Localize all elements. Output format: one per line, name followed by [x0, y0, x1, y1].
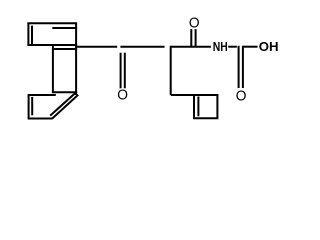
chain bond CH to carbonyl C to NH [171, 46, 211, 48]
ring C bottom edge [193, 117, 218, 119]
acid C=O double bond line 2 [242, 46, 244, 88]
ring A left edge inner double-bond line [31, 26, 33, 45]
ring C left edge inner double-bond line [197, 97, 199, 117]
svg-text:OH: OH [259, 39, 279, 54]
ring B bottom edge [28, 118, 53, 120]
CH2 to cyclobutene bond / ring C top edge [171, 94, 219, 96]
svg-text:NH: NH [213, 39, 228, 54]
ring C left edge [193, 94, 195, 118]
chain bond from ring to CH [76, 46, 117, 48]
ketone C=O double bond line 2 [124, 53, 126, 89]
ring A left edge [27, 23, 29, 46]
ketone C=O double bond line 1 [120, 53, 122, 89]
ring B left edge [28, 94, 30, 118]
svg-text:O: O [236, 88, 247, 104]
middle ring bottom edge [52, 91, 77, 93]
bond NH to acid C [228, 46, 237, 48]
ring A top edge [27, 22, 77, 24]
ring fusion bond inner line [52, 48, 77, 50]
amide C=O double bond line 2 [195, 29, 197, 46]
middle ring left edge [52, 45, 54, 93]
ring C right edge [216, 94, 218, 118]
amide C=O double bond line 1 [190, 29, 192, 46]
svg-text:O: O [117, 88, 128, 104]
CH2 vertical bond [170, 46, 172, 95]
acid C=O double bond line 1 [238, 46, 240, 88]
ring A bottom edge [27, 44, 77, 46]
svg-text:O: O [189, 16, 200, 32]
ring B diagonal inner double-bond line [50, 93, 76, 116]
bond acid C to OH [243, 46, 258, 48]
right vertical edge (ring A / middle ring) [75, 23, 77, 95]
ring A top edge inner double-bond line [52, 27, 77, 29]
ring B top edge [28, 94, 56, 96]
ring B diagonal bond [52, 95, 78, 119]
ring B left edge inner double-bond line [31, 97, 33, 115]
chain bond CH to CH [120, 46, 164, 48]
